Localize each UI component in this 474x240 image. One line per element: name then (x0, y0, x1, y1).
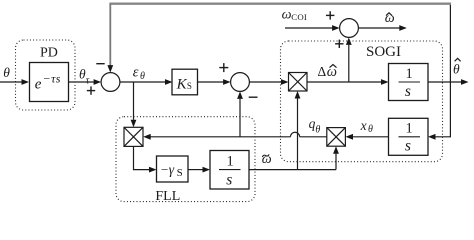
svg-text:FLL: FLL (155, 189, 180, 204)
svg-text:SOGI: SOGI (366, 44, 401, 60)
sign plus at S1 (87, 86, 95, 94)
wire S1 to Ks (120, 81, 165, 83)
wire feedback down-right to block2 input (435, 4, 450, 137)
svg-text:θ: θ (368, 124, 373, 135)
multiplier M1 (289, 73, 308, 92)
sum S3 (340, 19, 359, 38)
sign minus at S1 (96, 63, 104, 65)
svg-text:τ: τ (86, 75, 90, 86)
arrowhead into M1 left (281, 79, 289, 85)
wire delay block to sum S1 (69, 81, 95, 83)
svg-text:PD: PD (40, 46, 58, 61)
wire branch up to sum S3 (348, 45, 350, 82)
wire Ks to sum S2 (198, 81, 224, 83)
arrowhead into S3 bottom (346, 37, 352, 45)
multiplier M2 (327, 128, 346, 147)
wire omega-COI input to S3 (285, 27, 333, 29)
wire block1 to theta-hat output (428, 81, 461, 83)
dashed box SOGI (281, 41, 443, 162)
wire top feedback vertical down to S1 (109, 4, 111, 66)
svg-text:θ: θ (140, 71, 145, 82)
arrowhead into S2 left (223, 79, 231, 85)
arrowhead omega-hat output (399, 25, 407, 31)
svg-text:ε: ε (133, 64, 139, 80)
block 1/s FLL (210, 151, 249, 190)
sign plus below S3 (335, 40, 343, 48)
svg-text:1: 1 (406, 121, 413, 137)
svg-text:ω: ω (282, 8, 292, 23)
wire M1 to integrator block1 (delta-omega line) (307, 81, 382, 83)
sum S1 (101, 73, 120, 92)
svg-text:Δ: Δ (318, 64, 327, 79)
sign plus before S3 (326, 11, 334, 19)
arrowhead into S1 top (107, 65, 113, 73)
wire q-theta branch up to S2 (239, 99, 241, 137)
wire top feedback horizontal (gray) (109, 3, 451, 5)
svg-text:COI: COI (291, 12, 307, 22)
svg-text:−: − (161, 162, 168, 177)
svg-text:1: 1 (227, 153, 234, 169)
wire omega-tilde branch up to M2 (335, 154, 337, 170)
svg-text:1: 1 (406, 66, 413, 82)
dashed box PD (16, 40, 76, 110)
arrowhead theta-hat output (461, 79, 469, 85)
fraction bars (219, 82, 420, 170)
block -gamma-s (157, 156, 189, 182)
sign minus at S2 (249, 96, 258, 98)
wire epsilon branch down to M3 (133, 82, 135, 120)
block e^-tau-s (30, 63, 69, 102)
arrowhead into FLL integrator (203, 167, 211, 173)
wire gamma block to FLL integrator (188, 169, 203, 171)
arrowhead into S1 left (94, 79, 102, 85)
arrowhead into block2 right (428, 134, 436, 140)
multiplier M3 (124, 127, 143, 146)
arrowhead into M3 right (143, 134, 151, 140)
arrowhead into M2 bottom (333, 146, 339, 154)
sign plus at S2 (219, 63, 228, 72)
svg-text:θ: θ (315, 124, 320, 135)
sum S2 (231, 73, 250, 92)
block 1/s SOGI lower (block2) (389, 118, 429, 155)
block 1/s SOGI upper (block1) (389, 64, 429, 101)
wire x-theta from block2 to M2 (353, 136, 389, 138)
svg-text:e: e (35, 76, 42, 92)
wire S3 to omega-hat output (358, 27, 399, 29)
svg-text:s: s (405, 138, 411, 155)
arrowhead into S2 bottom (237, 91, 243, 99)
svg-text:S: S (177, 167, 183, 179)
wire omega-tilde vertical up to M1 through hop (297, 98, 299, 169)
arrowhead into M2 right (346, 134, 354, 140)
svg-text:K: K (176, 76, 188, 92)
wire q-theta line from M2 to M3 with hop (300, 136, 327, 138)
arrowhead into gamma block (149, 167, 157, 173)
svg-text:x: x (360, 118, 367, 133)
svg-text:S: S (187, 81, 192, 91)
arrowhead into Ks (165, 79, 173, 85)
wire omega-tilde from FLL integrator (249, 169, 336, 171)
wire S2 to multiplier M1 (249, 81, 281, 83)
svg-text:γ: γ (169, 162, 175, 177)
dashed box FLL (116, 117, 255, 202)
svg-text:θ: θ (453, 62, 460, 77)
arrowhead into delay block (22, 79, 30, 85)
svg-text:−τs: −τs (43, 71, 61, 85)
wire M3 output to gamma block (134, 146, 150, 169)
block Ks (172, 69, 198, 95)
arrowhead into M1 bottom (295, 91, 301, 99)
arrowhead into M3 top (131, 120, 137, 128)
wire theta input to delay block (0, 81, 22, 83)
svg-text:ω: ω (262, 152, 272, 167)
svg-text:θ: θ (3, 65, 10, 80)
arrowhead into S3 left (332, 25, 340, 31)
arrowhead into block1 left (381, 79, 389, 85)
svg-text:s: s (226, 172, 232, 189)
svg-text:s: s (405, 83, 411, 100)
